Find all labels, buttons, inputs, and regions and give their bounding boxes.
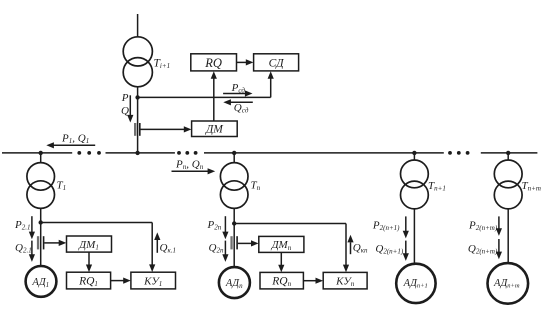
label P (top): [121, 92, 129, 104]
label Q (top): [121, 105, 129, 117]
arrow RQ to SD: [237, 59, 254, 65]
wire: T_i+1 to bus: [137, 87, 139, 153]
wire: Tn+1 to ADn+1: [413, 209, 415, 264]
arrow P_2n down: [222, 216, 228, 239]
transformer Tn+m: [494, 160, 522, 209]
label ADn+1: [403, 278, 428, 290]
label P_2.1: [14, 219, 30, 232]
motor ADn: [219, 267, 250, 298]
label Q_2(n+m): [468, 243, 498, 256]
arrow Q_kn up: [347, 235, 353, 254]
node: bus tap T1: [39, 151, 43, 155]
motor ADn+1: [396, 264, 435, 303]
box RQn: [260, 272, 303, 289]
label T_i+1: [154, 58, 171, 71]
label P_1, Q_1: [61, 133, 89, 146]
label P_sd: [231, 82, 246, 95]
box DMn: [259, 236, 304, 252]
wire: tap to DM1 with arrow: [44, 240, 66, 246]
label Q_2(n+1): [375, 243, 404, 256]
label P_n, Q_n: [175, 158, 204, 171]
arrow DM to RQ: [211, 71, 217, 121]
arrow P_n,Q_n rightward: [172, 168, 216, 174]
svg-text:Pn, Qn: Pn, Qn: [175, 158, 204, 171]
wire: junction to KUn branch: [234, 224, 349, 273]
arrow P down (n+m): [496, 216, 502, 236]
svg-text:Q: Q: [121, 105, 129, 117]
arrow Q_sd leftward: [223, 99, 253, 105]
wire: incoming feeder to T_i+1: [137, 14, 139, 37]
label Q_k1: [160, 242, 176, 255]
label P_2n: [207, 219, 222, 232]
label AD1: [31, 277, 49, 289]
arrow DMn to RQn: [278, 253, 284, 273]
svg-text:P1, Q1: P1, Q1: [61, 133, 89, 146]
label RQ1: [78, 276, 98, 289]
transformer Tn: [220, 163, 248, 209]
wire: T1 to AD1: [40, 208, 42, 266]
label ADn: [225, 278, 243, 290]
transformer T1: [27, 163, 55, 209]
arrow Q_2n down: [222, 241, 228, 262]
wire: tap to DM box (top) with arrow: [141, 126, 192, 132]
arrow Q down (n+m): [496, 239, 502, 259]
label P_2(n+m): [468, 220, 498, 233]
label Tn: [251, 180, 261, 193]
ellipsis dots 1: [77, 151, 101, 155]
arrow P_2.1 down: [29, 216, 35, 239]
node: bus tap Tn: [232, 151, 236, 155]
transformer T_i+1: [123, 37, 152, 87]
bus segment 1: [2, 152, 72, 154]
svg-text:P: P: [121, 92, 129, 104]
arrow P_1,Q_1 leftward: [46, 142, 95, 148]
arrow P,Q downward (top): [127, 95, 133, 122]
arrow RQ1 to KU1: [111, 278, 131, 284]
label KU1: [143, 276, 162, 289]
node: T_i+1 secondary junction: [135, 95, 139, 99]
arrow Q_2.1 down: [29, 241, 35, 262]
arrow Q down (n+1): [403, 241, 409, 261]
wire: Tn to ADn: [233, 208, 235, 267]
ellipsis dots 2: [177, 151, 197, 155]
wire: bus to Tn+m: [507, 153, 509, 160]
arrow P_sd rightward: [223, 90, 252, 96]
wire: tap to DMn with arrow: [238, 240, 259, 246]
wire: bus to Tn+1: [413, 153, 415, 160]
wire+arrow up into SD: [268, 71, 274, 97]
label Tn+1: [428, 180, 446, 193]
box DM (top): [192, 121, 238, 137]
current tap symbol (top): [134, 123, 140, 136]
box KU1: [131, 272, 176, 289]
label P_2(n+1): [372, 220, 400, 233]
label DM1: [78, 239, 99, 252]
current tap symbol (1): [37, 236, 44, 249]
svg-text:ДМ: ДМ: [205, 124, 224, 136]
wire: bus to Tn: [233, 153, 235, 163]
arrow RQn to KUn: [304, 278, 324, 284]
label RQ: [204, 56, 222, 70]
wire: junction to KU1 branch: [41, 223, 156, 273]
label SD: [269, 57, 285, 69]
svg-text:RQ: RQ: [204, 56, 222, 70]
label Q_sd: [234, 102, 249, 115]
node: bus tap Tn+1: [412, 151, 416, 155]
wire: Tn+m to ADn+m: [507, 209, 509, 263]
label ADn+m: [493, 278, 520, 290]
node: junction below T1: [39, 220, 43, 224]
label Q_2n: [209, 242, 224, 255]
motor AD1: [26, 266, 57, 297]
transformer Tn+1: [401, 160, 429, 209]
wire: bus to T_1: [40, 153, 42, 163]
arrow DM1 to RQ1: [86, 252, 92, 272]
box SD (synchronous motor): [254, 54, 299, 71]
box RQ (top regulator): [191, 54, 237, 71]
label DM: [205, 124, 224, 136]
bus segment 3: [204, 152, 444, 154]
label Tn+m: [522, 180, 541, 193]
motor ADn+m: [488, 263, 529, 304]
label KUn: [335, 276, 355, 289]
ellipsis dots 3: [448, 151, 469, 155]
label Q_2.1: [15, 242, 32, 255]
node: bus tap Tn+m: [506, 151, 510, 155]
box RQ1: [67, 272, 111, 289]
box KUn: [323, 272, 367, 289]
wire: junction to SD branch: [138, 96, 271, 98]
arrow Q_k1 up: [154, 232, 160, 252]
arrow P down (n+1): [403, 216, 409, 238]
label Q_kn: [353, 242, 368, 255]
node: junction below Tn: [232, 221, 236, 225]
node: bus tap Ti+1: [135, 151, 139, 155]
bus segment 2: [106, 152, 175, 154]
svg-text:СД: СД: [269, 57, 285, 69]
current tap symbol (n): [230, 236, 237, 249]
box DM1: [67, 236, 112, 252]
label RQn: [271, 276, 291, 289]
label T1: [57, 180, 67, 193]
label DMn: [271, 239, 292, 252]
bus segment 4: [481, 152, 538, 154]
